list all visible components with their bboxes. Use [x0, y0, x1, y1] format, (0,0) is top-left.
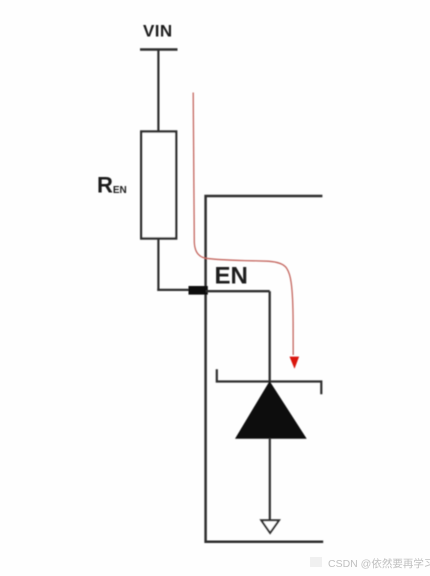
ground symbol [261, 520, 279, 533]
wire VIN rail to resistor R_EN [157, 50, 159, 133]
wire EN pin to internal node (horizontal) [206, 290, 270, 292]
wire resistor R_EN to EN node [157, 239, 159, 291]
wire zener anode to ground [269, 438, 271, 520]
watermark smudge [310, 557, 322, 567]
svg-text:EN: EN [215, 263, 248, 290]
svg-text:CSDN @依然要再学习: CSDN @依然要再学习 [328, 557, 430, 570]
wire EN node horizontal to pin [157, 289, 192, 291]
svg-text:VIN: VIN [143, 22, 173, 41]
wire internal node down to zener cathode [269, 291, 271, 381]
red arrowhead [290, 357, 300, 369]
IC boundary outline [206, 196, 324, 542]
pin EN filled pad [189, 286, 208, 295]
zener diode anode triangle [236, 382, 306, 438]
resistor R_EN [141, 132, 176, 239]
power rail VIN bar [140, 48, 178, 50]
current path arrow (red wire) [193, 93, 293, 356]
zener diode cathode bar with bent ends [217, 369, 321, 394]
